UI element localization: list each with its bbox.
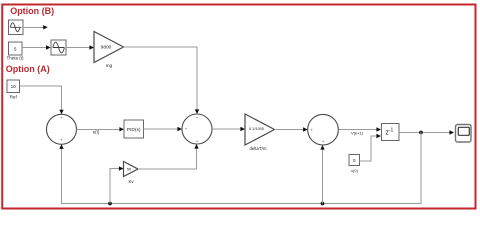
wire feedback branch to Kv gain input: [110, 166, 124, 203]
wire sum2 to deltaT/m gain: [212, 127, 245, 131]
svg-text:Ref: Ref: [10, 95, 18, 100]
svg-text:10: 10: [11, 84, 17, 89]
wire from sine source (dangling arrow): [23, 25, 48, 29]
constant block 5 (Theta): [9, 42, 23, 55]
unit delay block z^-1: [382, 124, 400, 141]
junction on feedback line for Kv branch: [108, 202, 112, 206]
svg-text:Theta (t): Theta (t): [6, 56, 24, 61]
gain label Kv: [128, 179, 134, 184]
feedback wire from junction down and left to sum1 bottom: [59, 132, 421, 204]
value label Ref: [10, 95, 18, 100]
junction on scope wire: [419, 131, 423, 135]
gain block Kv value 50: [124, 162, 139, 177]
label Option (A): [6, 64, 50, 74]
svg-text:V(k+1): V(k+1): [351, 131, 364, 136]
svg-text:PID(s): PID(s): [127, 127, 141, 133]
sum block 3: [308, 114, 339, 145]
svg-text:e(t): e(t): [93, 129, 100, 134]
label Option (B): [10, 6, 54, 16]
gain label mg: [106, 63, 113, 68]
wire unit delay to scope: [399, 130, 454, 134]
scope block: [456, 125, 472, 143]
sum block 2: [182, 114, 212, 144]
svg-text:0.1/1000: 0.1/1000: [249, 126, 265, 131]
svg-text:deltaT/m: deltaT/m: [249, 146, 266, 151]
sine wave source block (unconnected): [9, 20, 24, 35]
svg-text:9800: 9800: [101, 45, 112, 51]
svg-text:mg: mg: [106, 63, 113, 68]
node label V(k+1): [351, 131, 364, 136]
wire mg gain to sum2 top: [124, 47, 200, 114]
svg-text:Option (A): Option (A): [6, 64, 50, 74]
node label e(t): [93, 129, 100, 134]
wire Ref to sum1 top: [20, 86, 64, 114]
wire PID to sum2: [144, 127, 183, 131]
wire deltaT/m to sum3: [275, 127, 308, 131]
constant block 0 (initial condition): [349, 155, 360, 166]
PID controller block PID(s): [124, 120, 144, 138]
wire feedback branch up to sum3 bottom: [320, 145, 324, 204]
gain block mg value 9800: [94, 32, 124, 63]
constant block 10 (Ref): [7, 80, 20, 93]
wire sum3 to unit delay, node V(k+1): [338, 127, 381, 131]
sum block 1: [47, 114, 77, 144]
wire sine block to mg gain: [66, 45, 94, 49]
gain block deltaT/m value 0.1/1000: [245, 114, 275, 145]
wire sum1 to PID, node e(t): [77, 127, 125, 131]
value label v(0): [351, 168, 359, 173]
gain label deltaT/m: [249, 146, 266, 151]
value label Theta (t): [6, 56, 24, 61]
wire Kv gain to sum2 bottom: [138, 144, 199, 169]
svg-text:5: 5: [14, 46, 17, 51]
wire 5 to sine block: [22, 45, 51, 49]
junction on feedback line for sum3 branch: [321, 202, 325, 206]
wire v(0) to unit delay IC port: [360, 134, 382, 161]
sine function block: [51, 40, 66, 55]
svg-text:v(0): v(0): [351, 168, 359, 173]
svg-text:Option (B): Option (B): [10, 6, 54, 16]
svg-text:Kv: Kv: [128, 179, 134, 184]
